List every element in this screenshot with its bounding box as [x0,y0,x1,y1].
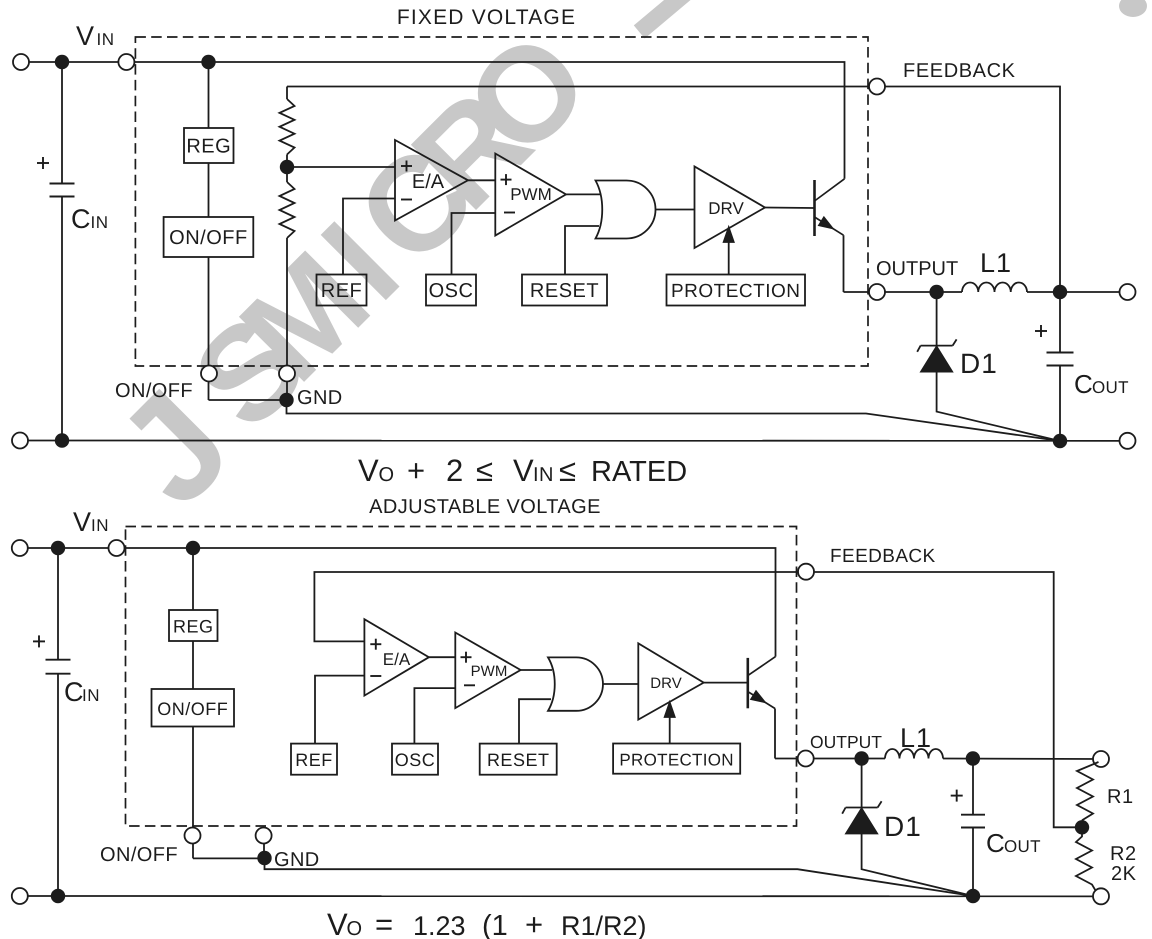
wire REG to ON/OFF (fixed) [208,163,210,217]
block REG (adj) [169,610,218,641]
wire E/A out (fixed) [468,179,495,181]
svg-text:GND: GND [274,849,320,871]
svg-text:REG: REG [186,136,231,158]
node CIN bottom (fixed) [55,433,69,447]
node GND (fixed) [279,393,293,407]
wire ON/OFF pin to GND node (fixed) [209,399,287,401]
svg-text:RATED: RATED [591,456,687,488]
svg-text:O: O [379,464,395,486]
svg-text:OUT: OUT [1004,837,1041,856]
svg-text:V: V [76,21,94,51]
svg-text:IN: IN [91,213,109,232]
svg-text:OSC: OSC [395,750,436,770]
wire gate out (adj) [603,683,638,685]
CIN polarity + [37,162,49,164]
wire emitter down (fixed) [843,235,845,292]
IC boundary dashed box (adj) [126,527,797,827]
svg-text:≤: ≤ [559,453,576,488]
transistor Q (adj) [746,658,749,708]
wire E/A out (adj) [429,656,455,658]
wire feedback inner (adj) [314,572,1082,827]
block ON/OFF (fixed) [164,217,254,257]
svg-text:ADJUSTABLE VOLTAGE: ADJUSTABLE VOLTAGE [369,496,601,518]
node COUT top (adj) [966,751,980,765]
ground terminal right (fixed) [1120,433,1136,449]
resistor R upper (fixed) [280,99,295,155]
ground terminal left (fixed) [12,433,28,449]
COUT polarity + (adj) [951,795,963,797]
svg-text:R2: R2 [1110,843,1137,865]
svg-text:(1: (1 [482,910,508,939]
IC boundary dashed box (fixed) [135,37,868,366]
pin OUTPUT (adj) [798,751,814,767]
wire E/A minus to REF (fixed) [343,199,395,275]
node REG branch (fixed) [201,55,215,69]
wire R upper to node (fixed) [286,155,288,168]
svg-text:PWM: PWM [471,663,508,680]
svg-text:REG: REG [173,617,214,637]
pin FEEDBACK (fixed) [869,79,885,95]
wire to D1 (fixed) [936,292,938,346]
svg-text:≤: ≤ [476,453,493,488]
svg-text:C: C [986,828,1005,858]
svg-text:OUT: OUT [1092,378,1129,397]
wire COUT top (fixed) [1059,292,1061,353]
wire GND run (fixed) [287,400,1061,441]
svg-text:2K: 2K [1111,863,1137,885]
svg-text:IN: IN [533,464,554,486]
svg-text:PROTECTION: PROTECTION [619,751,733,770]
pin OUTPUT (fixed) [869,284,885,300]
wire protection arrow (fixed) [728,240,730,275]
wire output (adj) [775,758,885,760]
wire DRV out (adj) [704,682,747,684]
capacitor COUT (adj) [961,814,985,816]
svg-text:PROTECTION: PROTECTION [671,281,801,302]
wire gate out (fixed) [656,209,695,211]
comparator PWM (adj) [455,633,520,709]
wire COUT top (adj) [972,759,974,815]
svg-text:C: C [1074,369,1093,399]
block REF (adj) [291,744,337,775]
svg-text:V: V [513,453,534,488]
node REG branch (adj) [186,541,200,555]
svg-text:2: 2 [446,453,463,488]
node CIN top (fixed) [55,55,69,69]
wire tap to E/A + (fixed) [287,166,395,168]
resistor divider top lead (fixed) [286,87,288,100]
svg-text:RESET: RESET [530,280,599,302]
inductor L1 (fixed) [962,283,1027,293]
svg-text:RESET: RESET [487,750,550,770]
node R1 R2 tap (adj) [1075,820,1089,834]
svg-text:ON/OFF: ON/OFF [100,844,178,866]
svg-text:OUTPUT: OUTPUT [810,732,882,752]
svg-text:IN: IN [97,30,115,49]
svg-text:OUTPUT: OUTPUT [876,258,958,280]
svg-text:O: O [347,918,363,939]
node CIN bottom (adj) [51,889,65,903]
wire E/A minus to REF (adj) [315,676,364,744]
block ON/OFF (adj) [152,689,235,727]
svg-text:D1: D1 [884,811,922,842]
pin VIN (adj) [109,540,125,556]
svg-text:ON/OFF: ON/OFF [115,380,193,402]
or-gate (adj) [548,657,603,710]
inductor L1 (adj) [885,749,943,759]
block OSC (fixed) [426,275,476,306]
wire PWM minus to OSC (adj) [414,688,455,744]
node D1 top (adj) [854,751,868,765]
svg-text:ON/OFF: ON/OFF [157,699,228,719]
svg-text:+: + [525,907,543,939]
capacitor CIN plates (fixed) [50,183,75,185]
output terminal (adj) [1093,751,1109,767]
svg-text:PWM: PWM [510,185,552,204]
output terminal (fixed) [1120,284,1136,300]
svg-text:OSC: OSC [429,280,474,302]
wire protection arrow (adj) [669,715,671,744]
capacitor CIN plates (adj) [46,659,71,661]
COUT polarity + (fixed) [1035,330,1047,332]
wire ON/OFF to pin (fixed) [208,257,210,400]
wire tap to R lower (fixed) [286,167,288,182]
driver DRV (fixed) [695,167,766,249]
svg-text:L1: L1 [980,248,1012,278]
wire RESET to gate (adj) [519,699,551,743]
wire REG to ON/OFF (adj) [192,641,194,689]
wire PWM out (adj) [521,669,552,671]
wire output (fixed) [844,291,963,293]
node divider tap (fixed) [280,160,294,174]
svg-text:=: = [375,907,393,939]
node ground junction (fixed) [1053,434,1067,448]
svg-text:C: C [71,204,91,234]
pin ON/OFF (fixed) [201,366,217,382]
svg-text:REF: REF [295,750,333,770]
capacitor COUT (fixed) [1047,352,1074,354]
CIN polarity + (adj) [33,640,45,642]
block OSC (adj) [392,744,438,775]
svg-text:E/A: E/A [412,171,445,193]
resistor R lower (fixed) [280,182,295,238]
node D1 top (fixed) [929,285,943,299]
wire CIN column bottom (adj) [57,674,59,896]
pin VIN (fixed) [118,54,134,70]
svg-text:V: V [327,907,348,939]
svg-text:ON/OFF: ON/OFF [169,227,248,249]
wire ground rail (adj) [20,895,1101,897]
pin GND (adj) [256,828,272,844]
op-amp E/A (adj) [364,619,429,695]
svg-text:D1: D1 [960,348,998,379]
svg-text:IN: IN [82,686,100,705]
diode D1 (fixed) [921,345,953,347]
node GND (adj) [257,851,271,865]
wire emitter down (adj) [774,709,776,759]
wire D1 to ground (adj) [862,834,973,897]
wire ON/OFF to pin (adj) [192,727,194,859]
wire COUT bottom (fixed) [1059,366,1061,441]
wire VIN rail (adj) [20,548,776,657]
wire D1 to ground (fixed) [937,372,1060,441]
input terminal (fixed) [13,54,29,70]
wire GND run (adj) [265,858,974,896]
pin FEEDBACK (adj) [798,564,814,580]
wire feedback line (fixed) [287,87,1060,293]
wire to D1 (adj) [861,759,863,808]
wire PWM out (fixed) [566,193,601,195]
wire RESET to gate (fixed) [565,226,599,275]
wire DRV out (fixed) [765,207,814,210]
ground terminal left (adj) [12,888,28,904]
svg-text:R1/R2): R1/R2) [561,911,647,939]
wire GND pin stub (adj) [263,836,265,859]
wire ON/OFF pin to GND node (adj) [193,857,265,859]
pin ON/OFF (adj) [185,828,201,844]
node CIN top (adj) [51,541,65,555]
svg-text:DRV: DRV [708,199,744,218]
block RESET (adj) [480,744,557,775]
svg-text:FEEDBACK: FEEDBACK [903,60,1016,82]
wire VIN rail (fixed) [21,62,845,179]
wire COUT bottom (adj) [972,828,974,896]
svg-text:REF: REF [321,280,363,302]
wire to REG (adj) [192,548,194,610]
or-gate (fixed) [596,181,656,239]
svg-text:V: V [73,507,91,537]
svg-text:E/A: E/A [383,650,411,669]
node ground junction (adj) [966,889,980,903]
svg-text:IN: IN [91,516,109,535]
wire R lower to GND (fixed) [286,238,288,400]
svg-text:V: V [358,453,379,488]
resistor R2 (adj) [1076,827,1097,893]
svg-text:FIXED VOLTAGE: FIXED VOLTAGE [397,6,576,29]
block RESET (fixed) [522,275,607,306]
block REG (fixed) [184,128,234,163]
ground terminal right (adj) [1093,888,1109,904]
block PROTECTION (adj) [613,744,740,774]
svg-text:R1: R1 [1107,786,1134,808]
wire ground rail (fixed) [20,440,1128,442]
input terminal (adj) [12,540,28,556]
diode D1 (adj) [846,807,878,809]
transistor Q (fixed) [813,180,816,236]
op-amp E/A (fixed) [395,140,468,221]
wire to REG (fixed) [208,62,210,128]
wire CIN column bottom (fixed) [61,197,63,441]
svg-text:+: + [407,453,425,488]
svg-text:C: C [64,677,84,707]
svg-text:1.23: 1.23 [413,911,466,939]
resistor R1 (adj) [1077,762,1099,827]
wire PWM minus to OSC (fixed) [452,213,496,275]
driver DRV (adj) [638,643,703,719]
comparator PWM (fixed) [495,154,566,236]
pin GND (fixed) [279,366,295,382]
svg-text:FEEDBACK: FEEDBACK [830,546,936,567]
block PROTECTION (fixed) [667,275,806,306]
svg-text:L1: L1 [900,723,932,753]
svg-text:GND: GND [297,387,343,409]
wire CIN column top (fixed) [61,62,63,184]
wire CIN column top (adj) [57,548,59,660]
block REF (fixed) [317,275,367,306]
node COUT top (fixed) [1053,285,1067,299]
svg-text:DRV: DRV [650,675,681,692]
